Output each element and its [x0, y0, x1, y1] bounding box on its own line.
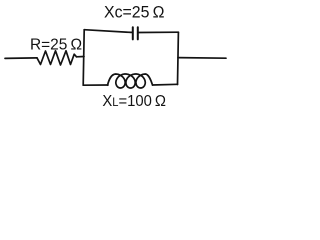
wire resistor to node A [77, 56, 85, 58]
wire top left segment [84, 30, 132, 33]
resistor R=25 [37, 51, 77, 65]
wire right branch vertical (node B) [177, 32, 180, 84]
svg-text:XL=100 Ω: XL=100 Ω [102, 93, 166, 110]
inductor XL coil [108, 74, 153, 88]
wire left branch vertical (node A) [83, 30, 84, 85]
wire left input [5, 57, 37, 60]
svg-text:Xc=25 Ω: Xc=25 Ω [104, 3, 165, 21]
capacitor Xc plate 2 [137, 27, 139, 39]
wire bottom right segment [153, 83, 178, 86]
capacitor Xc plate 1 [132, 27, 134, 39]
wire top right segment [139, 31, 179, 33]
wire bottom left segment [83, 84, 108, 86]
wire right output [178, 57, 226, 60]
